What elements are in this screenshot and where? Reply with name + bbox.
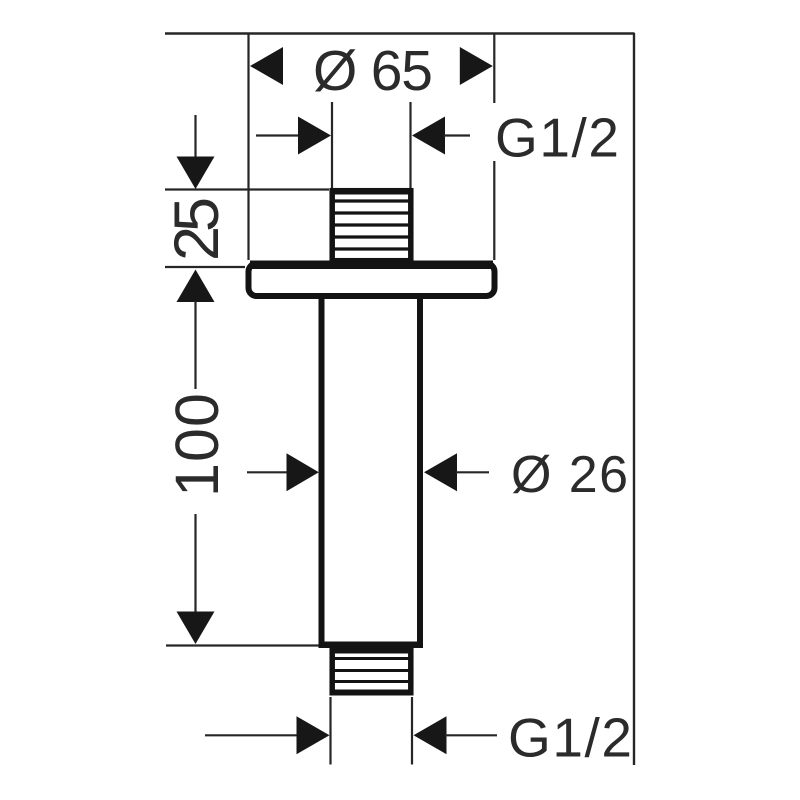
extension line right (G1/2 bottom)	[411, 697, 413, 765]
pipe right wall	[417, 299, 423, 642]
frame top line	[165, 32, 635, 34]
extension line right (G1/2 top)	[409, 102, 411, 188]
dim arrow left (G1/2 top)	[298, 117, 331, 155]
extension line left (flange dia 65)	[247, 34, 249, 260]
svg-text:Ø 26: Ø 26	[511, 446, 628, 504]
dim line right stub (G1/2 bottom)	[445, 734, 497, 736]
frame right line	[633, 33, 635, 765]
pipe bottom shoulder	[319, 642, 424, 649]
escutcheon flange	[249, 261, 495, 297]
extension line top (25 dim, thread top level)	[165, 188, 329, 190]
svg-text:100: 100	[163, 393, 231, 497]
threaded connector top	[330, 188, 414, 261]
extension line left (G1/2 bottom)	[329, 697, 331, 765]
svg-text:Ø 65: Ø 65	[313, 39, 433, 103]
dim line lower segment (100 dim)	[194, 514, 196, 613]
svg-text:G1/2: G1/2	[508, 707, 632, 769]
dim arrow up (100 dim)	[177, 270, 215, 303]
dim line left stub (G1/2 top)	[256, 134, 301, 136]
svg-text:25: 25	[162, 197, 232, 261]
pipe left wall	[319, 299, 325, 642]
extension line right (flange dia 65)	[493, 34, 495, 260]
dim arrow left (dia 26)	[287, 453, 319, 491]
white mask behind G1/2 top text	[486, 103, 628, 161]
dim arrow right (G1/2 bottom)	[414, 716, 447, 754]
dim arrow left (dia 65)	[250, 47, 283, 85]
extension line bottom (100 dim, pipe end level)	[166, 644, 319, 646]
dim line left stub (dia 26)	[247, 471, 289, 473]
dim line upper segment (100 dim)	[194, 301, 196, 389]
dim line left stub (G1/2 bottom)	[205, 734, 299, 736]
dim arrow right (G1/2 top)	[412, 117, 445, 155]
dim arrow down (25 dim)	[194, 115, 196, 158]
dim line right stub (dia 26)	[456, 471, 489, 473]
dim arrow down (100 dim)	[177, 612, 215, 645]
svg-text:G1/2: G1/2	[495, 107, 619, 169]
threaded connector bottom	[330, 648, 414, 696]
dim line right stub (G1/2 top)	[444, 134, 471, 136]
dim arrow right (dia 26)	[424, 453, 457, 491]
extension line bottom (25 dim, flange top level)	[165, 266, 245, 268]
extension line left (G1/2 top)	[331, 102, 333, 188]
dim arrow right (dia 65)	[460, 47, 493, 85]
dim arrow left (G1/2 bottom)	[297, 716, 330, 754]
